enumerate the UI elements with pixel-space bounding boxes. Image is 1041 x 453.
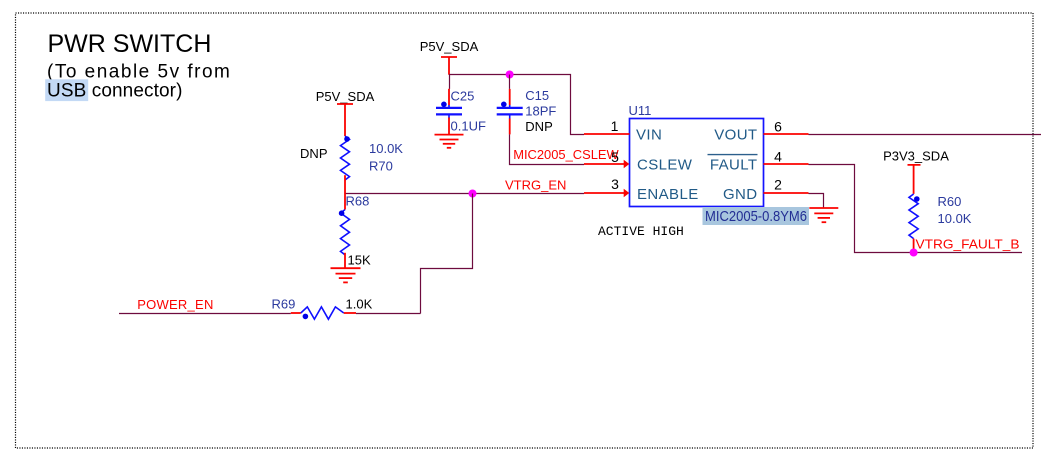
svg-text:VTRG_EN: VTRG_EN xyxy=(505,177,566,192)
wire: GND pin to ground xyxy=(809,194,824,209)
svg-text:P5V_SDA: P5V_SDA xyxy=(316,89,375,104)
svg-text:PWR SWITCH: PWR SWITCH xyxy=(48,30,212,58)
svg-text:6: 6 xyxy=(774,119,782,135)
capacitor C25 xyxy=(436,75,486,135)
svg-text:5: 5 xyxy=(611,149,619,165)
svg-text:DNP: DNP xyxy=(300,146,327,161)
resistor R70 xyxy=(300,136,403,193)
svg-text:15K: 15K xyxy=(348,253,371,268)
pin 1 stub (VIN) xyxy=(584,133,630,135)
wire: P5V_SDA rail to VIN xyxy=(449,75,584,135)
resistor R69 xyxy=(272,297,373,320)
junction (VTRG_EN / divider tap) xyxy=(469,190,477,198)
svg-text:CSLEW: CSLEW xyxy=(637,157,693,174)
svg-text:FAULT: FAULT xyxy=(710,157,758,174)
pin 4 stub (FAULT) xyxy=(764,163,809,165)
ground (below R68) xyxy=(331,268,361,282)
power symbol P5V_SDA (above C25) xyxy=(420,39,479,75)
power symbol P5V_SDA (left, above R70) xyxy=(316,89,375,136)
svg-text:MIC2005_CSLEW: MIC2005_CSLEW xyxy=(513,147,619,162)
svg-text:C25: C25 xyxy=(451,89,475,104)
part value MIC2005-0.8YM6 (highlighted) xyxy=(703,207,810,225)
svg-text:U11: U11 xyxy=(629,103,652,118)
svg-text:R69: R69 xyxy=(272,297,296,312)
svg-text:4: 4 xyxy=(774,148,782,164)
ground (at GND pin) xyxy=(809,208,838,222)
junction (R60 / FAULT net) xyxy=(910,249,918,257)
pin 3 stub (ENABLE) with input arrow xyxy=(584,192,625,194)
svg-text:P5V_SDA: P5V_SDA xyxy=(420,39,479,54)
capacitor C15 xyxy=(497,75,557,135)
wire: step from POWER_EN divider up to VTRG_EN xyxy=(421,194,473,314)
ground (below C25) xyxy=(435,135,464,148)
svg-text:GND: GND xyxy=(723,186,758,203)
IC U11 MIC2005-0.8YM6 power switch xyxy=(629,103,764,207)
svg-text:R60: R60 xyxy=(938,194,962,209)
svg-text:2: 2 xyxy=(774,177,782,193)
svg-text:MIC2005-0.8YM6: MIC2005-0.8YM6 xyxy=(705,208,807,225)
svg-text:VTRG_FAULT_B: VTRG_FAULT_B xyxy=(916,237,1020,252)
pin 6 stub (VOUT) xyxy=(764,133,809,135)
svg-text:10.0K: 10.0K xyxy=(938,211,972,226)
pin 2 stub (GND) xyxy=(764,192,809,194)
svg-text:ACTIVE HIGH: ACTIVE HIGH xyxy=(598,224,684,239)
svg-text:VOUT: VOUT xyxy=(714,127,757,144)
resistor R60 xyxy=(909,194,972,252)
svg-text:C15: C15 xyxy=(525,88,549,103)
wire: POWER_EN net xyxy=(119,313,421,315)
wire: ENABLE net horizontal (R70/R68 tap to IC) xyxy=(345,193,584,195)
svg-text:10.0K: 10.0K xyxy=(369,141,403,156)
svg-text:1.0K: 1.0K xyxy=(346,297,373,312)
svg-text:3: 3 xyxy=(611,176,619,192)
svg-text:POWER_EN: POWER_EN xyxy=(137,297,213,312)
wire: VOUT net to sheet edge xyxy=(809,134,1041,136)
wire: FAULT net down and right xyxy=(809,165,1023,253)
pin 5 stub (CSLEW) with input arrow xyxy=(584,163,625,165)
title text xyxy=(45,30,231,102)
svg-text:R70: R70 xyxy=(369,159,393,174)
wire: MIC2005_CSLEW net (C15 to CSLEW pin) xyxy=(510,134,585,164)
svg-text:P3V3_SDA: P3V3_SDA xyxy=(883,149,949,164)
svg-text:18PF: 18PF xyxy=(525,103,556,118)
junction (C15 tap) xyxy=(506,71,514,79)
svg-text:USB connector): USB connector) xyxy=(47,81,183,102)
svg-text:0.1UF: 0.1UF xyxy=(451,119,486,134)
svg-text:ENABLE: ENABLE xyxy=(637,186,699,203)
svg-text:R68: R68 xyxy=(346,194,370,209)
power symbol P3V3_SDA xyxy=(883,149,949,194)
svg-text:1: 1 xyxy=(611,118,619,134)
svg-text:DNP: DNP xyxy=(525,119,552,134)
resistor R68 xyxy=(339,193,371,268)
svg-text:VIN: VIN xyxy=(636,127,662,144)
